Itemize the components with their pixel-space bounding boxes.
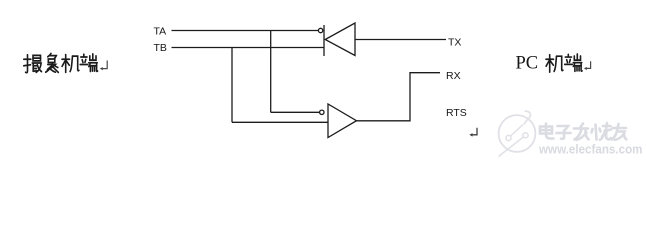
svg-text:TA: TA	[154, 26, 167, 38]
wire vertical from TA down to receiver input (node A)	[270, 31, 272, 113]
watermark text 友	[612, 124, 626, 140]
return mark after PC 机端	[584, 61, 591, 70]
caption 摄象机端 : glyph 端	[80, 54, 97, 72]
wire TB	[172, 47, 324, 49]
watermark logo right pad	[523, 133, 528, 138]
watermark logo left pad	[506, 135, 511, 140]
driver U1 triangle (points left)	[325, 23, 355, 56]
watermark text 电	[540, 124, 554, 139]
svg-text:RX: RX	[446, 70, 461, 82]
watermark text 发	[574, 124, 589, 140]
driver U1 inverting bubble	[318, 28, 322, 32]
watermark text 烧	[592, 123, 612, 140]
wire RX from receiver output	[357, 73, 441, 121]
return mark after schematic	[469, 128, 477, 137]
caption PC 机端 : glyph 端	[565, 54, 582, 71]
caption 摄象机端 : glyph 机	[62, 55, 79, 73]
return mark after 摄象机端	[100, 61, 108, 71]
svg-text:PC: PC	[516, 54, 539, 74]
watermark logo tail	[524, 111, 531, 125]
svg-text:www.elecfans.com: www.elecfans.com	[538, 143, 642, 157]
watermark logo trace upper	[511, 125, 524, 137]
wire TA	[172, 30, 319, 32]
caption 摄象机端 : glyph 象	[46, 53, 59, 72]
receiver U2 triangle (points right)	[328, 104, 357, 138]
wire horizontal into receiver bubble	[271, 111, 320, 113]
driver U1 input bar	[323, 25, 325, 56]
watermark logo circle	[499, 115, 536, 152]
watermark logo trace lower	[499, 137, 524, 157]
receiver U2 inverting bubble	[320, 110, 324, 114]
caption 摄象机端 : glyph 摄	[24, 55, 42, 73]
caption PC 机端 : glyph 机	[546, 55, 563, 72]
wire horizontal into receiver lower input	[232, 121, 328, 123]
wire vertical from TB down (node B)	[231, 48, 233, 123]
svg-text:TX: TX	[448, 37, 461, 49]
svg-text:TB: TB	[154, 42, 167, 54]
svg-text:RTS: RTS	[446, 107, 467, 119]
watermark text 子	[557, 126, 571, 139]
wire TX	[355, 39, 446, 41]
